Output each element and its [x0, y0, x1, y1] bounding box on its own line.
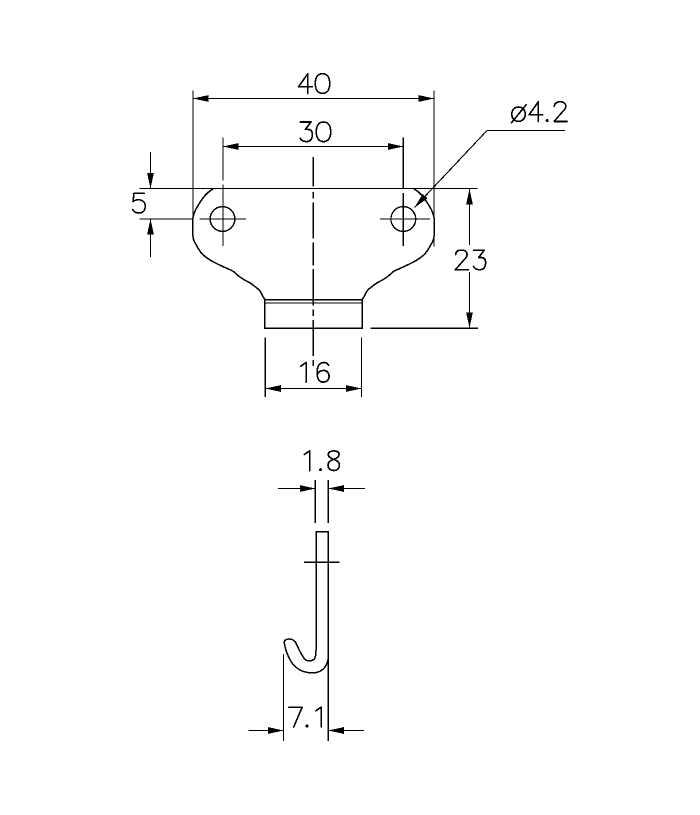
40 dimension line [193, 98, 434, 100]
40 left extension line [192, 91, 194, 240]
16 left arrow [265, 385, 281, 392]
23 dimension line lower part [469, 272, 471, 328]
text 23 [455, 250, 468, 270]
hole right vertical centerline segment 1 [402, 138, 404, 189]
hole right circle [391, 207, 416, 232]
top edge of bracket with extension lines [140, 188, 478, 190]
diameter leader underline [487, 130, 565, 132]
30 dimension line [223, 146, 403, 148]
diameter leader arrow [415, 194, 428, 208]
text 40 [299, 74, 313, 87]
flange band rectangle [265, 300, 362, 329]
bracket outline right side [362, 189, 434, 300]
5 lower arrow [147, 219, 154, 235]
40 right extension line [433, 91, 435, 247]
hole right horizontal centerline [380, 218, 430, 220]
front view dash-dot centerline [312, 157, 314, 186]
23 top arrow [466, 189, 473, 205]
1.8 right arrow [328, 485, 344, 492]
1.8 left extension line [314, 480, 316, 523]
hole left circle [210, 207, 235, 232]
7.1 left extension line [283, 654, 285, 741]
23 dimension line upper part [469, 189, 471, 245]
text 1.8 [304, 451, 309, 471]
5 dimension line lower part [150, 219, 152, 257]
hole left vertical centerline segment 1 [222, 138, 224, 181]
text 5 [133, 193, 146, 213]
diameter leader line [415, 131, 488, 208]
16 right extension line [361, 338, 363, 398]
hole left horizontal centerline segment 2 [199, 218, 246, 220]
text 30 [300, 122, 312, 142]
5 dimension line upper part [150, 152, 152, 189]
hole right vertical centerline segment 2 [402, 193, 404, 246]
30 right arrow [388, 143, 404, 150]
23 bottom arrow [466, 312, 473, 328]
7.1 right extension line [327, 655, 329, 741]
23 bottom extension line [371, 327, 478, 329]
text dia 4.2 [512, 107, 525, 121]
7.1 dimension line left segment [248, 730, 283, 732]
7.1 dimension line right segment [328, 730, 364, 732]
30 left arrow [223, 143, 239, 150]
hook hole-axis tick [304, 561, 339, 563]
5 upper arrow [147, 173, 154, 189]
1.8 dimension line left segment [278, 488, 315, 490]
bracket outline left side [193, 189, 265, 300]
16 left extension line [264, 338, 266, 398]
hook side view outline [284, 532, 328, 673]
40 right arrow [419, 95, 435, 102]
16 dimension line [265, 388, 361, 390]
1.8 right extension line [327, 480, 329, 523]
1.8 dimension line right segment [328, 488, 365, 490]
hole left vertical centerline segment 2 [222, 185, 224, 247]
7.1 right arrow [328, 727, 344, 734]
text 7.1 [289, 707, 302, 727]
7.1 left arrow [268, 727, 284, 734]
flange band inner line [265, 302, 362, 304]
16 right arrow [346, 385, 362, 392]
hole left horizontal centerline segment 1 [139, 218, 193, 220]
text 16 [301, 363, 306, 383]
1.8 left arrow [300, 485, 316, 492]
40 left arrow [193, 95, 209, 102]
